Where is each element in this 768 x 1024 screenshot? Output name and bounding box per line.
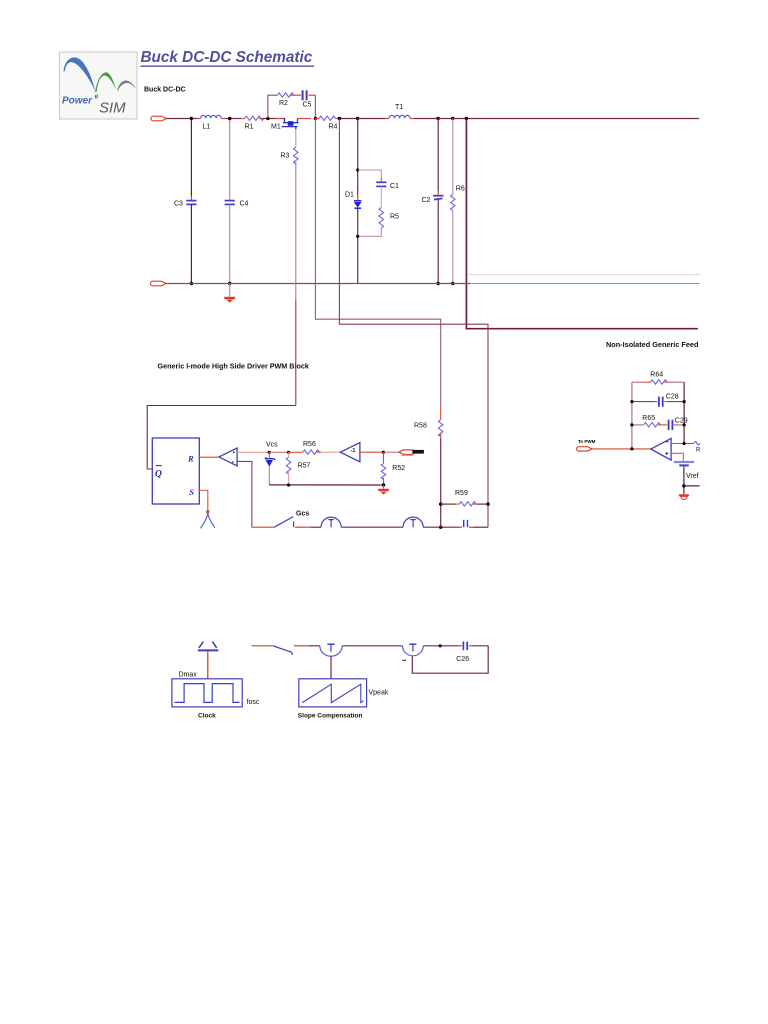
wire C1 top stub xyxy=(380,178,382,182)
sawtooth wave xyxy=(302,684,363,702)
resistor R5 xyxy=(379,208,384,228)
resistor R64 xyxy=(632,380,684,384)
svg-text:Power: Power xyxy=(62,96,93,107)
svg-text:Q: Q xyxy=(155,469,162,479)
wire inverter out to R52 node xyxy=(360,451,384,453)
resistor R2 xyxy=(278,93,294,97)
svg-text:C28: C28 xyxy=(666,393,679,400)
svg-text:Clock: Clock xyxy=(198,712,216,719)
node R6 top xyxy=(451,117,454,120)
node R58 R59 junction xyxy=(439,502,442,505)
current source B xyxy=(403,517,423,527)
title underline xyxy=(141,65,315,67)
capacitor C5 xyxy=(303,90,307,100)
svg-text:Vpeak: Vpeak xyxy=(369,690,389,697)
wire S output to pulse xyxy=(199,490,208,511)
wire A: M1 source node down to R58 xyxy=(315,119,440,408)
diode D2 zener at Vcs xyxy=(265,452,275,485)
svg-text:R59: R59 xyxy=(455,490,468,497)
transistor M1 body blob xyxy=(288,121,294,126)
wire fb left vertical xyxy=(631,382,633,449)
wire M1 drain stub xyxy=(276,118,283,120)
node vref ground xyxy=(682,484,685,487)
node R57 bottom xyxy=(287,483,290,486)
wire R4 to D1 node xyxy=(335,118,357,120)
inductor L1 xyxy=(201,115,222,118)
svg-text:R2: R2 xyxy=(279,100,288,107)
wire fb right vertical xyxy=(683,382,685,443)
wire switch to source1 xyxy=(294,645,320,647)
pulse source at S xyxy=(201,510,215,528)
wire R6 branch upper xyxy=(452,119,454,195)
op-amp U3 error amp xyxy=(651,438,671,460)
wire R6 branch lower xyxy=(452,211,454,284)
svg-text:Vref: Vref xyxy=(686,473,699,480)
wire comparator minus down to cs bus xyxy=(237,461,252,527)
wire R1 to M1 node xyxy=(259,118,276,120)
node C4 bottom xyxy=(228,282,231,285)
svg-text:C5: C5 xyxy=(303,101,312,108)
svg-text:e: e xyxy=(95,94,99,101)
resistor R6 xyxy=(451,195,456,211)
svg-text:R5: R5 xyxy=(390,214,399,221)
svg-text:R64: R64 xyxy=(650,372,663,379)
node R6 bottom xyxy=(451,282,454,285)
node C2 bottom xyxy=(437,282,440,285)
capacitor C3 branch xyxy=(190,119,192,196)
svg-text:Non-Isolated Generic Feed: Non-Isolated Generic Feed xyxy=(606,340,698,349)
node after R4 xyxy=(338,117,341,120)
wire source1 to slope box xyxy=(330,656,332,678)
clock square wave xyxy=(175,684,240,703)
op-amp comparator U2 xyxy=(219,448,237,466)
capacitor C2 polarized xyxy=(433,196,444,200)
capacitor C28 xyxy=(632,397,684,407)
node C29 right xyxy=(683,423,686,426)
ground under C4 xyxy=(224,284,235,303)
node ground R52 xyxy=(382,483,385,486)
svg-text:R56: R56 xyxy=(303,441,316,448)
svg-text:R52: R52 xyxy=(392,465,405,472)
logo blue arc xyxy=(64,57,96,91)
logo green arc xyxy=(95,72,116,92)
logo PowerEsim box xyxy=(60,52,138,119)
svg-text:To PWM: To PWM xyxy=(578,439,596,444)
svg-text:R65: R65 xyxy=(642,415,655,422)
wire L1 to R1 xyxy=(221,118,244,120)
wire vref node right xyxy=(684,485,700,487)
svg-text:C1: C1 xyxy=(390,183,399,190)
capacitor C26 xyxy=(459,642,488,651)
svg-text:R6: R6 xyxy=(456,185,465,192)
wire comparator plus input to Vcs xyxy=(237,451,269,453)
switch slope xyxy=(274,646,293,655)
wire C1 to R5 xyxy=(380,186,382,207)
wire T1 to C2 node xyxy=(410,118,438,120)
battery Vref xyxy=(674,462,694,465)
resistor R3 xyxy=(294,147,299,164)
svg-text:C3: C3 xyxy=(174,201,183,208)
node M1 source xyxy=(314,117,317,120)
wire slope top left xyxy=(252,645,274,647)
capacitor C4 xyxy=(225,201,235,205)
resistor R58 xyxy=(438,408,443,528)
op-amp inverter -1 block xyxy=(340,443,360,462)
svg-text:C4: C4 xyxy=(240,201,249,208)
faint sense line xyxy=(468,274,700,276)
wire comparator out to R input xyxy=(199,456,219,458)
wire rail D1 to T1 xyxy=(358,118,390,120)
svg-text:C26: C26 xyxy=(456,656,469,663)
svg-text:R1: R1 xyxy=(245,124,254,131)
svg-text:Generic I-mode High Side Drive: Generic I-mode High Side Driver PWM Bloc… xyxy=(158,362,309,371)
wire R3 gate down to flipflop Q xyxy=(147,162,296,469)
svg-text:S: S xyxy=(189,487,194,497)
clock pulse symbol xyxy=(198,642,218,651)
inductor T1 xyxy=(389,115,410,118)
snubber branch R2 C5 left leg xyxy=(268,95,278,118)
wire battery to ground xyxy=(683,466,685,494)
wire C vout sense down and right xyxy=(466,119,698,329)
wire B: R4 node down to R59 right xyxy=(339,119,488,528)
resistor R4 xyxy=(319,116,335,120)
wire C4 lower xyxy=(229,204,231,283)
node C26 xyxy=(439,644,442,647)
wire M1 gate down to R3 xyxy=(295,129,297,147)
node C1R5 loop top xyxy=(356,168,359,171)
svg-text:C29: C29 xyxy=(675,417,688,424)
flip-flop Qbar label xyxy=(155,466,162,480)
node C28 right xyxy=(683,400,686,403)
capacitor C1 xyxy=(376,182,386,186)
svg-text:T1: T1 xyxy=(395,104,403,111)
capacitor C3 xyxy=(186,201,196,205)
wire cs bus left segment xyxy=(252,526,274,528)
wire slope return loop xyxy=(412,646,488,673)
wire top rail input to L1 xyxy=(167,118,201,120)
node C28 left xyxy=(630,400,633,403)
flip-flop U1 box xyxy=(152,438,199,504)
node Vout sense xyxy=(465,117,468,120)
node opamp out xyxy=(630,447,633,450)
wire C3 stub xyxy=(190,196,192,201)
wire opamp minus input xyxy=(671,443,694,445)
node R58 bottom bus xyxy=(439,526,442,529)
node R59 right xyxy=(486,502,489,505)
svg-text:L1: L1 xyxy=(203,124,211,131)
ground under R52 xyxy=(378,485,389,495)
resistor R52 xyxy=(381,452,386,485)
wire D1 branch lower xyxy=(357,209,359,284)
resistor R57 xyxy=(286,452,291,485)
transistor M1 (MOSFET) xyxy=(282,119,299,130)
svg-text:Dmax: Dmax xyxy=(179,672,198,679)
minus mark slope xyxy=(402,659,406,661)
wire Vcs to R57 xyxy=(269,451,288,453)
svg-text:D1: D1 xyxy=(345,192,354,199)
svg-text:SIM: SIM xyxy=(99,100,126,117)
wire R57 to R56 xyxy=(289,451,303,453)
node C2 top xyxy=(437,117,440,120)
resistor R59 xyxy=(441,502,488,506)
node R57 top xyxy=(287,451,290,454)
node C3 top xyxy=(190,117,193,120)
output terminal xyxy=(150,281,166,286)
terminal To PWM xyxy=(577,439,596,451)
input terminal xyxy=(151,116,167,121)
svg-text:C2: C2 xyxy=(422,197,431,204)
wire cs bus to R58 node xyxy=(423,526,459,528)
clock box xyxy=(172,679,242,707)
wire cs bus to source A xyxy=(295,526,321,528)
wire rail C2 to R6 node xyxy=(438,118,453,120)
node R52 top xyxy=(382,451,385,454)
wire source1 to source2 xyxy=(342,645,402,647)
label Isense scribble xyxy=(412,450,424,454)
wire pwm ground bus xyxy=(269,484,383,486)
svg-text:Buck DC-DC: Buck DC-DC xyxy=(144,87,186,94)
node D1 top xyxy=(356,117,359,120)
node opamp input xyxy=(683,442,686,445)
wire terminal to opamp xyxy=(593,448,651,450)
slope current source 1 xyxy=(320,644,342,656)
wire clock to box xyxy=(207,652,209,679)
resistor R56 xyxy=(303,450,320,454)
svg-text:R: R xyxy=(187,454,194,464)
snubber right leg to rail xyxy=(308,95,315,118)
sensor ticks in cs bus xyxy=(459,520,488,527)
wire R4 stub xyxy=(315,118,319,120)
wire R56 to inverter xyxy=(316,451,340,453)
wire C3 lower xyxy=(190,204,192,283)
terminal Isense xyxy=(399,450,414,454)
partial resistor squiggle right xyxy=(694,442,701,454)
node R65 left xyxy=(630,423,633,426)
switch Gcs xyxy=(274,517,293,528)
svg-text:R3: R3 xyxy=(281,153,290,160)
svg-text:Gcs: Gcs xyxy=(296,511,309,518)
svg-text:fosc: fosc xyxy=(247,699,260,706)
svg-text:-1: -1 xyxy=(351,448,356,454)
slope current source 2 xyxy=(403,644,424,656)
wire C1R5 loop top xyxy=(358,170,382,178)
node M1 drain xyxy=(266,117,269,120)
wire R2 to C5 xyxy=(291,94,301,96)
svg-text:M1: M1 xyxy=(271,123,281,130)
capacitor C4 branch upper xyxy=(229,119,231,201)
svg-text:Buck DC-DC Schematic: Buck DC-DC Schematic xyxy=(141,49,313,66)
wire source2 to C26 xyxy=(423,645,459,647)
svg-text:R4: R4 xyxy=(329,124,338,131)
svg-text:R58: R58 xyxy=(414,422,427,429)
node C4 top xyxy=(228,117,231,120)
svg-text:Slope Compensation: Slope Compensation xyxy=(298,712,363,719)
node C3 bottom xyxy=(190,282,193,285)
wire C2 branch lower xyxy=(437,200,439,284)
resistor R65 and capacitor C29 xyxy=(632,420,684,430)
wire to Isense terminal xyxy=(384,451,399,453)
wire D1 branch upper xyxy=(357,119,359,201)
slope comp box xyxy=(299,679,367,707)
svg-text:R: R xyxy=(696,448,701,454)
wire M1 source to rail xyxy=(298,118,312,120)
wire C1R5 loop bottom xyxy=(358,228,382,236)
logo gray arc xyxy=(117,80,136,90)
ground Vref xyxy=(679,494,689,499)
wire C2 branch upper xyxy=(437,119,439,196)
svg-text:R57: R57 xyxy=(298,462,311,469)
current source A xyxy=(321,517,341,527)
bottom rail xyxy=(167,283,700,285)
wire rail R6 to end xyxy=(453,118,699,120)
wire opamp plus to battery xyxy=(671,453,683,461)
node C1R5 loop bottom xyxy=(356,235,359,238)
diode D1 xyxy=(354,201,362,208)
resistor R1 xyxy=(245,116,264,120)
node Vcs xyxy=(268,451,271,454)
wire cs bus middle xyxy=(341,526,403,528)
svg-text:Vcs: Vcs xyxy=(266,441,278,448)
